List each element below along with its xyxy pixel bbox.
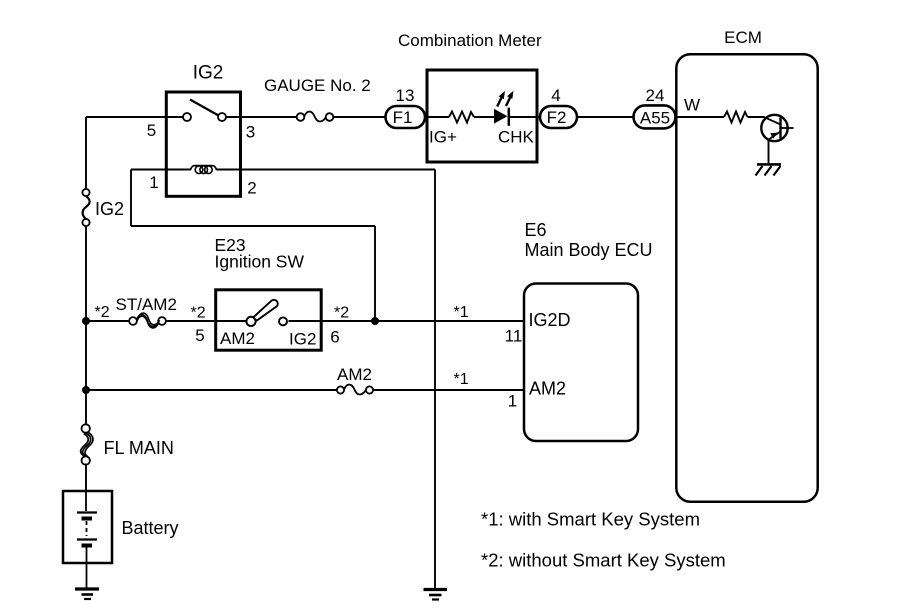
battery box <box>63 491 112 563</box>
LED emission arrows <box>497 91 513 107</box>
svg-text:AM2: AM2 <box>337 365 372 384</box>
wire: AM2 row from junction to fuse <box>86 389 337 391</box>
svg-text:*2: without Smart Key System: *2: without Smart Key System <box>481 550 726 571</box>
wire: coil return horizontal to x375 <box>131 225 375 227</box>
svg-text:Combination Meter: Combination Meter <box>398 31 542 50</box>
wire: resistor to transistor base <box>748 116 765 118</box>
wire: resistor to LED <box>474 116 495 118</box>
svg-text:A55: A55 <box>640 109 670 128</box>
svg-text:*2: *2 <box>95 304 110 321</box>
svg-text:IG2: IG2 <box>95 199 124 219</box>
svg-text:*1: with Smart Key System: *1: with Smart Key System <box>481 509 700 530</box>
svg-text:Ignition SW: Ignition SW <box>215 252 305 272</box>
svg-text:CHK: CHK <box>498 128 535 147</box>
resistor (meter internal) <box>449 112 474 123</box>
fusible link IG2 (vertical, with terminal circles) <box>82 189 89 226</box>
ground: bottom center earth ground <box>424 590 448 600</box>
wire: LED to F2 <box>510 116 541 118</box>
wire: left bus from ST/AM2 junction down to AM2 row junction <box>85 321 87 390</box>
wire: junction to ST/AM2 link <box>86 320 130 322</box>
svg-text:3: 3 <box>246 123 255 142</box>
transistor Q (ECM output) <box>761 115 793 141</box>
wire: link to ignition switch pin 5 <box>166 320 246 322</box>
svg-text:IG2: IG2 <box>289 330 316 349</box>
wire: A55 into ECM to resistor <box>676 116 725 118</box>
ECM box <box>676 54 817 501</box>
relay IG2 box <box>166 92 240 196</box>
ground: battery earth ground <box>75 589 99 599</box>
main body ECU E6 box <box>524 284 638 442</box>
ignition switch contact IG2 <box>279 317 287 325</box>
svg-text:Main Body ECU: Main Body ECU <box>525 240 653 260</box>
node: junction left bus at ST/AM2 row <box>82 317 90 325</box>
fusible link ST/AM2 <box>129 313 166 328</box>
svg-text:5: 5 <box>195 326 204 345</box>
wire: F2 to A55 <box>578 116 635 118</box>
ground: ECM chassis ground <box>756 164 782 175</box>
wire: coil return, down from pin 1 stub <box>130 170 132 227</box>
svg-text:13: 13 <box>396 86 415 105</box>
ignition switch contact AM2 <box>246 317 255 326</box>
wire: coil to relay pin 2 and out to vertical drop <box>217 169 436 171</box>
svg-text:AM2: AM2 <box>529 379 566 399</box>
fuse GAUGE No. 2 <box>297 112 334 122</box>
wire: left bus from IG2 link down to ST/AM2 row junction <box>85 226 87 321</box>
svg-text:Battery: Battery <box>122 518 179 538</box>
svg-text:24: 24 <box>646 86 665 105</box>
relay switch contact pin 3 <box>218 113 226 121</box>
svg-text:*1: *1 <box>454 371 469 388</box>
svg-text:W: W <box>684 96 700 115</box>
relay switch contact pin 5 <box>183 113 191 121</box>
svg-text:1: 1 <box>149 173 158 192</box>
wire: switch pin 6 out to E6 IG2D <box>289 320 525 322</box>
combination meter box <box>427 70 537 162</box>
connector A55 <box>634 105 676 128</box>
svg-text:IG+: IG+ <box>429 128 457 147</box>
fusible link FL MAIN (vertical, with terminal circles) <box>81 424 93 464</box>
LED CHK (diode with bar) <box>494 108 509 126</box>
connector F1 <box>386 106 426 128</box>
wire: relay pin 2 vertical drop to bottom ground <box>434 170 436 589</box>
wire: relay pin 3 to GAUGE fuse <box>226 116 297 118</box>
relay coil <box>190 166 216 174</box>
wire: left vertical bus from corner down to IG2 fusible link <box>85 117 87 189</box>
connector F2 <box>540 106 577 128</box>
svg-text:11: 11 <box>505 327 523 346</box>
wire: fuse to connector F1 <box>333 116 386 118</box>
svg-text:*2: *2 <box>334 305 349 322</box>
wire: coil return vertical down to ignition switch output row <box>374 226 376 321</box>
svg-text:F1: F1 <box>393 108 413 127</box>
svg-text:E6: E6 <box>525 220 547 240</box>
svg-text:1: 1 <box>508 392 517 411</box>
wire: top-left horizontal from left bus corner to relay pin 5 <box>86 116 183 118</box>
wire: transistor emitter down to ground <box>768 140 770 164</box>
svg-text:FL MAIN: FL MAIN <box>104 438 174 458</box>
ignition switch lever <box>253 300 278 321</box>
fuse AM2 <box>337 385 373 395</box>
relay switch blade <box>190 100 219 116</box>
svg-text:2: 2 <box>247 179 256 198</box>
svg-text:ST/AM2: ST/AM2 <box>116 295 177 314</box>
svg-text:4: 4 <box>551 86 560 105</box>
svg-text:IG2: IG2 <box>193 63 224 84</box>
svg-text:ECM: ECM <box>724 28 762 47</box>
svg-text:F2: F2 <box>547 108 567 127</box>
wire: relay pin 1 stub to coil <box>131 169 191 171</box>
svg-text:AM2: AM2 <box>220 329 255 348</box>
wire: left bus from AM2 junction down to FL MAIN link <box>85 390 87 425</box>
node: junction left bus at AM2 row <box>82 386 90 394</box>
resistor (ECM internal) <box>724 112 748 123</box>
wire: F1 into meter to resistor <box>426 116 449 118</box>
svg-text:*2: *2 <box>191 305 206 322</box>
svg-text:GAUGE No. 2: GAUGE No. 2 <box>264 76 371 95</box>
svg-text:*1: *1 <box>454 304 469 321</box>
svg-text:5: 5 <box>147 121 156 140</box>
node: junction at ignition switch output <box>371 317 379 325</box>
ignition switch E23 box <box>216 290 322 350</box>
svg-text:6: 6 <box>330 328 339 347</box>
battery cell symbol <box>77 491 97 588</box>
wire: from FL MAIN link to battery <box>85 464 87 492</box>
wire: AM2 fuse to E6 <box>373 389 524 391</box>
svg-text:IG2D: IG2D <box>529 310 571 330</box>
